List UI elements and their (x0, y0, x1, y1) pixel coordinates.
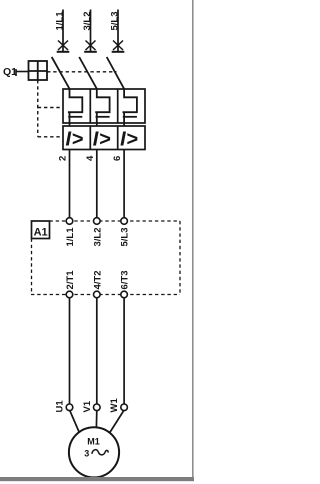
motor phase sine symbol (92, 450, 108, 455)
wire T3 to motor (123, 298, 125, 404)
breaker function cross pole 3 (113, 41, 123, 51)
device A1 dashed outline bottom edge (31, 294, 180, 296)
svg-text:1/L1: 1/L1 (65, 227, 76, 247)
svg-text:4/T2: 4/T2 (92, 270, 103, 289)
wire pole 3 between releases (123, 123, 125, 126)
screenshot border bottom grey band (0, 477, 194, 481)
device A1 dashed outline left edge (31, 239, 33, 295)
device A1 dashed outline right edge (179, 221, 181, 295)
contact blade pole 1 (52, 57, 70, 89)
device A1 dashed outline top edge (50, 220, 181, 222)
output terminal circle 4/T2 (94, 291, 101, 298)
thermal release element pole 1 (68, 89, 82, 123)
contact blade pole 2 (79, 57, 97, 89)
svg-text:A1: A1 (34, 227, 48, 239)
wire L1 incoming (62, 10, 64, 52)
svg-text:U1: U1 (55, 400, 66, 413)
svg-text:2: 2 (58, 156, 69, 161)
wire T1 to motor (69, 298, 71, 404)
linkage branch to thermal releases dashed (38, 107, 63, 109)
wire U1 into motor (70, 411, 80, 434)
motor terminal circle W1 (121, 404, 128, 411)
svg-text:3/L2: 3/L2 (92, 227, 103, 246)
wire pole 2 between releases (96, 123, 98, 126)
magnetic release box row (63, 126, 145, 150)
svg-text:5/L3: 5/L3 (120, 227, 131, 246)
svg-text:3: 3 (84, 449, 89, 459)
fixed contact bar pole 1 (57, 51, 70, 53)
svg-text:I>: I> (120, 129, 138, 151)
input terminal circle 3/L2 (94, 218, 101, 225)
wire L2 incoming (90, 10, 92, 52)
wire pole 3 to A1 (123, 150, 125, 218)
svg-text:6/T3: 6/T3 (120, 270, 131, 289)
svg-text:M1: M1 (87, 437, 100, 447)
fixed contact bar pole 2 (84, 51, 97, 53)
svg-text:I>: I> (93, 129, 111, 151)
wire V1 into motor (95, 411, 97, 428)
input terminal circle 5/L3 (121, 218, 128, 225)
wire pole 1 between releases (69, 123, 71, 126)
mechanical linkage vertical dashed (37, 80, 39, 137)
svg-text:6: 6 (112, 156, 123, 161)
wire T2 to motor (96, 298, 98, 404)
svg-text:4: 4 (85, 155, 96, 161)
svg-text:W1: W1 (109, 398, 120, 413)
svg-text:I>: I> (66, 129, 84, 151)
svg-text:V1: V1 (82, 400, 93, 412)
svg-text:Q1: Q1 (3, 66, 17, 78)
thermal release element pole 3 (123, 89, 137, 123)
fixed contact bar pole 3 (112, 51, 125, 53)
screenshot border right grey line (192, 0, 194, 481)
wire L3 incoming (117, 10, 119, 52)
motor terminal circle U1 (66, 404, 73, 411)
thermal release box row (63, 89, 145, 123)
breaker actuator Q1 box (29, 61, 48, 80)
actuator stub tick (15, 69, 17, 76)
actuator stub wire (16, 71, 29, 73)
breaker function cross pole 1 (58, 41, 68, 51)
contact blade pole 3 (107, 57, 124, 89)
svg-text:2/T1: 2/T1 (65, 270, 76, 290)
breaker function cross pole 2 (86, 41, 96, 51)
motor terminal circle V1 (94, 404, 101, 411)
wire pole 2 to A1 (96, 150, 98, 218)
motor M1 circle (69, 427, 119, 477)
device A1 designation box (32, 221, 50, 239)
wire pole 1 to A1 (69, 150, 71, 218)
output terminal circle 2/T1 (66, 291, 73, 298)
wire W1 into motor (110, 411, 124, 434)
output terminal circle 6/T3 (121, 291, 128, 298)
thermal release element pole 2 (95, 89, 109, 123)
mechanical linkage trip bar dashed (47, 71, 117, 73)
input terminal circle 1/L1 (66, 218, 73, 225)
linkage branch to magnetic releases dashed (38, 136, 63, 138)
